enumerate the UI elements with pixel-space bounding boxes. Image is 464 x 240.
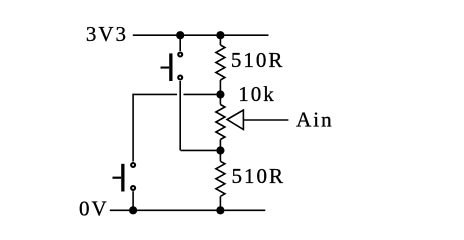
svg-text:510R: 510R — [231, 48, 285, 72]
svg-text:10k: 10k — [238, 82, 276, 106]
svg-text:Ain: Ain — [296, 107, 334, 131]
svg-text:0V: 0V — [79, 197, 109, 221]
svg-text:510R: 510R — [232, 164, 286, 188]
svg-text:3V3: 3V3 — [86, 22, 128, 46]
